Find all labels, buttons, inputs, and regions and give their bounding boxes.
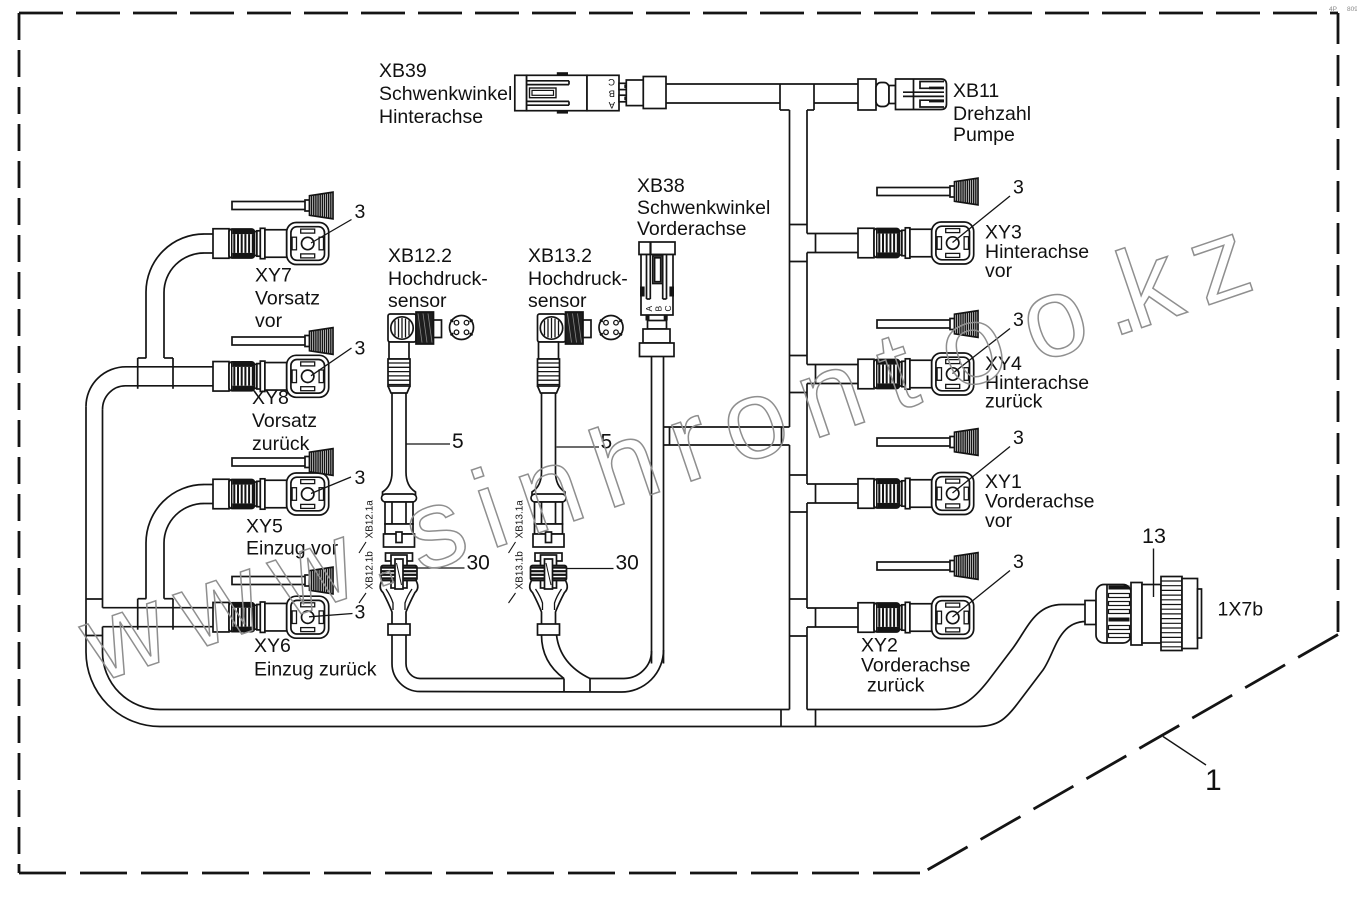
svg-text:3: 3	[1013, 427, 1024, 449]
svg-text:Vorsatz: Vorsatz	[255, 288, 320, 310]
svg-text:XY8: XY8	[252, 387, 289, 409]
svg-text:sensor: sensor	[388, 290, 447, 312]
svg-text:3: 3	[355, 338, 366, 360]
svg-text:XB11: XB11	[953, 80, 999, 102]
svg-text:Vorderachse: Vorderachse	[861, 655, 971, 677]
svg-text:3: 3	[1013, 177, 1024, 199]
svg-text:vor: vor	[255, 310, 283, 332]
svg-text:XY7: XY7	[255, 265, 292, 287]
svg-text:C: C	[608, 76, 615, 87]
svg-text:zurück: zurück	[252, 433, 310, 455]
svg-text:1: 1	[1205, 764, 1222, 797]
svg-text:30: 30	[616, 552, 639, 575]
svg-text:Einzug zurück: Einzug zurück	[254, 659, 377, 681]
svg-text:4P: 4P	[1329, 6, 1337, 13]
svg-text:XB38: XB38	[637, 175, 685, 197]
svg-text:XB12.2: XB12.2	[388, 245, 452, 267]
svg-text:Hochdruck-: Hochdruck-	[528, 268, 628, 290]
svg-text:A: A	[644, 306, 654, 312]
svg-text:B: B	[653, 306, 663, 312]
svg-text:sensor: sensor	[528, 290, 587, 312]
svg-text:5: 5	[452, 430, 464, 453]
svg-text:Schwenkwinkel: Schwenkwinkel	[637, 197, 770, 219]
svg-text:3: 3	[355, 201, 366, 223]
svg-text:zurück: zurück	[867, 675, 925, 697]
svg-text:Hochdruck-: Hochdruck-	[388, 268, 488, 290]
svg-text:C: C	[663, 305, 673, 311]
svg-text:1X7b: 1X7b	[1218, 599, 1264, 621]
svg-text:Vorderachse: Vorderachse	[637, 218, 747, 240]
svg-text:13: 13	[1142, 524, 1166, 548]
svg-text:Hinterachse: Hinterachse	[379, 106, 483, 128]
svg-text:809: 809	[1347, 6, 1357, 13]
svg-text:Pumpe: Pumpe	[953, 124, 1015, 146]
svg-text:XB39: XB39	[379, 60, 427, 82]
svg-text:XB13.2: XB13.2	[528, 245, 592, 267]
svg-text:Vorsatz: Vorsatz	[252, 410, 317, 432]
svg-text:3: 3	[1013, 551, 1024, 573]
svg-text:vor: vor	[985, 510, 1013, 532]
svg-text:Drehzahl: Drehzahl	[953, 103, 1031, 125]
svg-text:Schwenkwinkel: Schwenkwinkel	[379, 83, 512, 105]
svg-text:B: B	[609, 88, 615, 99]
svg-text:XY2: XY2	[861, 635, 898, 657]
svg-text:A: A	[608, 99, 615, 110]
